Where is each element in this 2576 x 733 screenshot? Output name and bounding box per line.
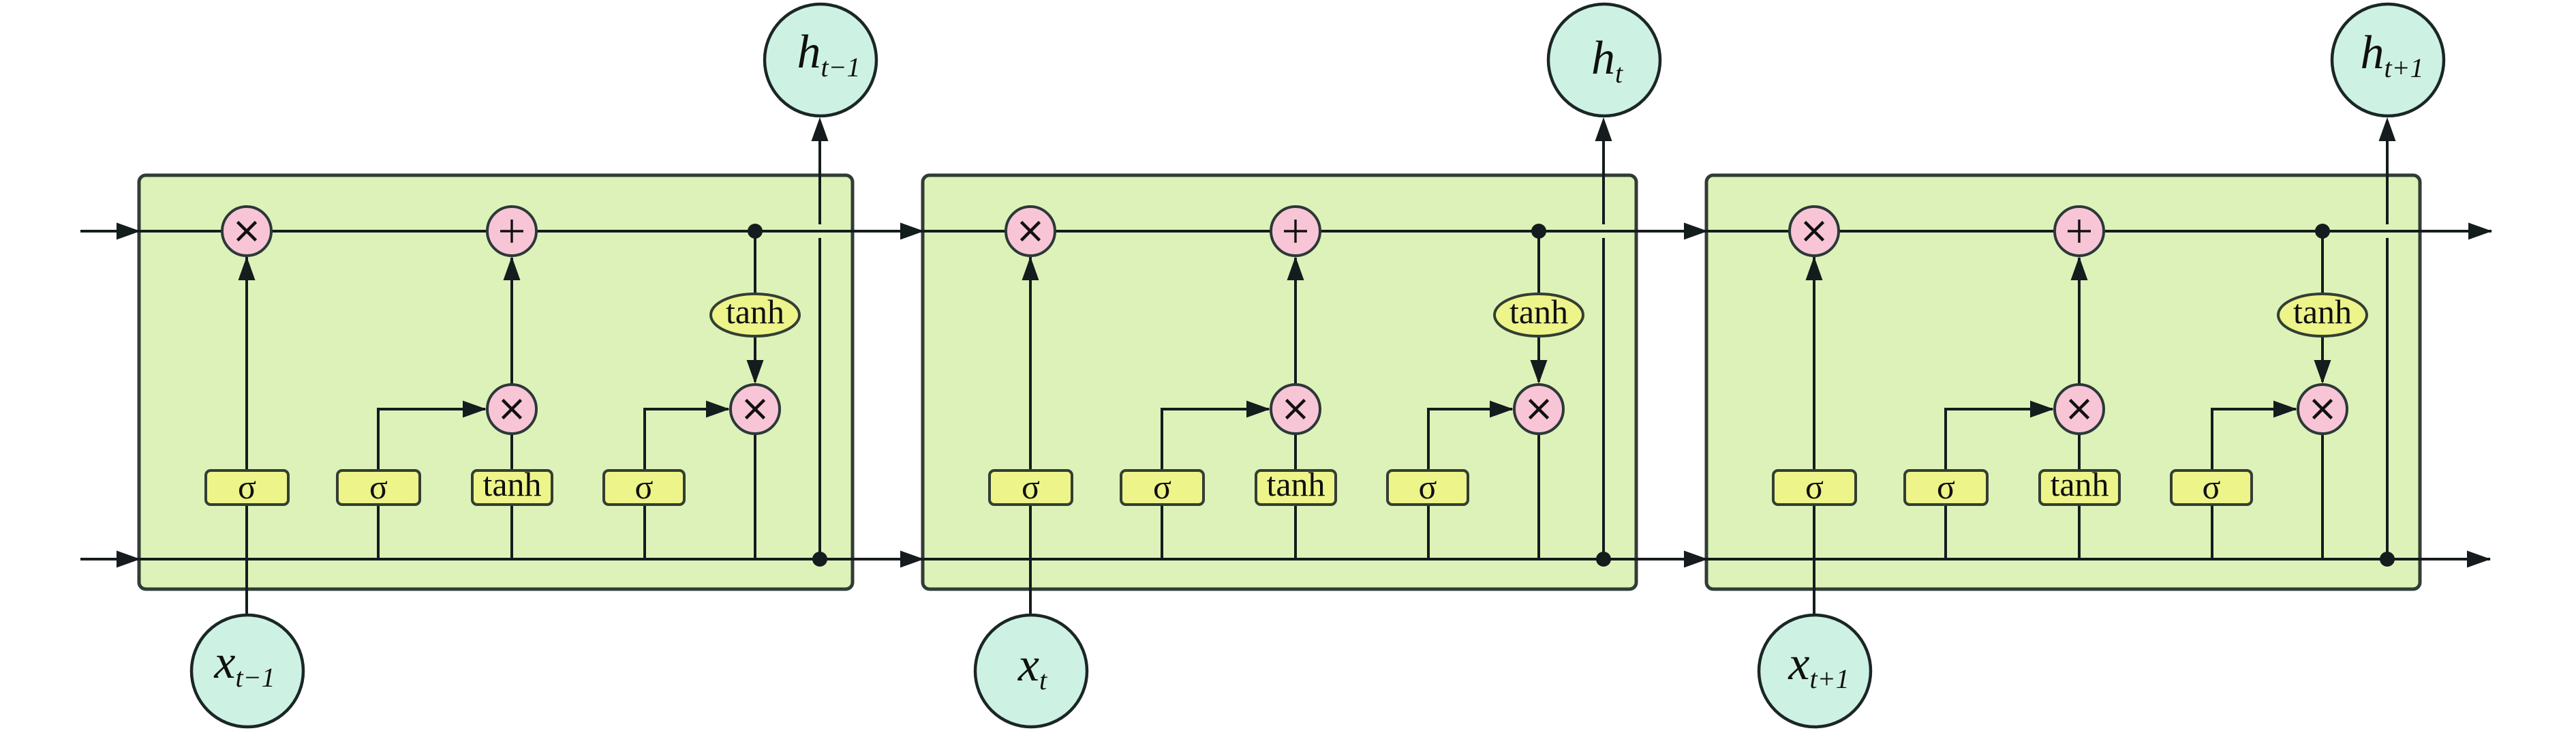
svg-text:σ: σ bbox=[238, 468, 256, 506]
svg-text:tanh: tanh bbox=[1509, 293, 1568, 331]
svg-text:σ: σ bbox=[2203, 468, 2221, 506]
svg-text:σ: σ bbox=[1805, 468, 1824, 506]
svg-text:σ: σ bbox=[1419, 468, 1437, 506]
svg-text:σ: σ bbox=[369, 468, 388, 506]
svg-text:tanh: tanh bbox=[482, 465, 541, 503]
svg-text:σ: σ bbox=[1022, 468, 1040, 506]
svg-text:σ: σ bbox=[635, 468, 654, 506]
svg-text:tanh: tanh bbox=[2293, 293, 2352, 331]
svg-text:σ: σ bbox=[1937, 468, 1955, 506]
svg-text:tanh: tanh bbox=[726, 293, 784, 331]
svg-text:tanh: tanh bbox=[1266, 465, 1325, 503]
svg-text:tanh: tanh bbox=[2050, 465, 2109, 503]
svg-text:σ: σ bbox=[1153, 468, 1171, 506]
